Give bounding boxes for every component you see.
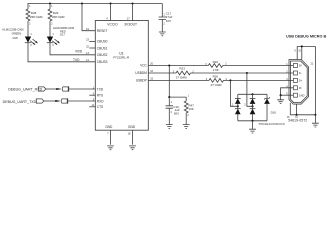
resistor R20 27 OHM bbox=[206, 75, 228, 88]
connector J1 micro-B shell bbox=[289, 60, 309, 105]
diode D16a upper left bbox=[235, 94, 241, 104]
wire R22 to USB 5V pin bbox=[223, 65, 294, 67]
wire 3V3 power rail bbox=[28, 3, 163, 5]
svg-text:TPD2E2U06DCKR: TPD2E2U06DCKR bbox=[258, 122, 285, 126]
svg-text:CBUS3: CBUS3 bbox=[97, 60, 108, 64]
wire TVS bottom rail bbox=[238, 120, 267, 122]
svg-text:27 OHM: 27 OHM bbox=[176, 76, 187, 80]
junction shield corner bbox=[314, 114, 316, 116]
svg-text:1: 1 bbox=[30, 33, 32, 36]
shield pin stubs top bbox=[294, 46, 301, 59]
wire USBDP to R20 bbox=[148, 79, 209, 81]
junction ID GND bbox=[280, 94, 282, 96]
diode D16c upper middle bbox=[250, 94, 256, 104]
svg-text:D18: D18 bbox=[13, 36, 18, 40]
svg-text:CBUS2: CBUS2 bbox=[97, 53, 108, 57]
junction TVS middle mid node bbox=[251, 105, 253, 107]
wire filter to RXD pin 5 bbox=[68, 100, 95, 102]
svg-text:7: 7 bbox=[107, 132, 109, 135]
inline filter symbol on RXD flag line bbox=[56, 86, 68, 91]
svg-text:2: 2 bbox=[163, 23, 165, 26]
wire ID pin to GND pin bbox=[281, 88, 294, 95]
ground under TVS bbox=[249, 129, 256, 133]
svg-text:268 OHM: 268 OHM bbox=[30, 15, 43, 19]
LED D18 GREEN HLMC220B-C006 bbox=[2, 28, 37, 48]
svg-text:CTS: CTS bbox=[97, 105, 103, 109]
svg-text:2: 2 bbox=[52, 44, 54, 47]
wire flag to filter bbox=[46, 88, 56, 90]
svg-text:VCC: VCC bbox=[140, 64, 147, 68]
junction TVS bottom rail bbox=[251, 120, 253, 122]
capacitor C16 .1uF 50V bbox=[166, 97, 180, 124]
svg-text:DEBUG_UART_RXD: DEBUG_UART_RXD bbox=[8, 88, 42, 92]
junction at 3V3OUT branch bbox=[131, 2, 133, 4]
junction shield top bbox=[301, 45, 303, 47]
svg-text:RXD: RXD bbox=[97, 99, 104, 103]
resistor R29 268 OHM bbox=[48, 4, 65, 37]
wire VCC to R22 bbox=[148, 65, 208, 67]
svg-text:16V: 16V bbox=[166, 19, 171, 23]
svg-text:4: 4 bbox=[106, 17, 108, 20]
junction shield bottom bbox=[295, 114, 297, 116]
svg-text:RTS: RTS bbox=[97, 93, 103, 97]
junction VCC decoupling branch bbox=[168, 64, 170, 66]
resistor R28 268 OHM bbox=[26, 4, 43, 37]
svg-text:2: 2 bbox=[244, 104, 246, 107]
resistor R22 1.5K bbox=[205, 60, 227, 72]
svg-text:18: 18 bbox=[128, 132, 131, 135]
wire shield to ground bbox=[314, 115, 316, 123]
wire shield right drop pin 21 bbox=[314, 46, 316, 114]
resistor R47 10K bbox=[184, 95, 194, 125]
svg-text:2: 2 bbox=[30, 44, 32, 47]
pin 7 GND stub bbox=[110, 130, 112, 144]
wire RESET to 3V3 rail bbox=[82, 4, 95, 31]
svg-text:CBUS0: CBUS0 bbox=[97, 40, 108, 44]
svg-text:HLMC300B-C006: HLMC300B-C006 bbox=[53, 26, 75, 30]
svg-text:TXD: TXD bbox=[97, 87, 104, 91]
junction at R29 top bbox=[49, 2, 51, 4]
svg-text:2: 2 bbox=[187, 114, 189, 117]
wire R23 to USB D- pin bbox=[191, 72, 294, 74]
wire filter to TXD pin 1 bbox=[69, 88, 95, 90]
wire TXD net from D18 to CBUS3 bbox=[28, 43, 95, 62]
pin 22 CBUS1 stub bbox=[89, 47, 95, 49]
connector pin 1 5V bbox=[286, 63, 302, 68]
off-page flag DEBUG_UART_RXD bbox=[8, 87, 46, 92]
ground under C16 bbox=[166, 125, 173, 129]
svg-text:21: 21 bbox=[311, 63, 314, 66]
pin 17 3V3OUT stub bbox=[132, 4, 134, 21]
wire RXD net from D17 to CBUS2 bbox=[50, 43, 95, 55]
junction C16 R47 bbox=[168, 96, 170, 98]
wire shield bottom run bbox=[290, 114, 315, 116]
svg-text:D+: D+ bbox=[299, 80, 303, 83]
junction D+ to TVS bbox=[229, 79, 231, 81]
junction at VCCIO branch bbox=[109, 2, 111, 4]
wire R20 to USB D+ pin bbox=[224, 79, 294, 81]
svg-text:1: 1 bbox=[171, 101, 173, 104]
pin 18 GND stub bbox=[132, 130, 134, 144]
connector pin 4 ID bbox=[286, 85, 301, 90]
inline filter symbol on TXD flag line bbox=[55, 98, 67, 103]
wire TVS ground drop bbox=[252, 121, 254, 129]
svg-text:R23: R23 bbox=[179, 67, 185, 71]
wire junction to R47 bbox=[169, 96, 186, 98]
svg-text:1: 1 bbox=[188, 95, 190, 98]
svg-text:23: 23 bbox=[86, 39, 89, 42]
wire D+ drop to TVS pin 1 bbox=[230, 80, 237, 106]
svg-text:USBDM: USBDM bbox=[135, 71, 147, 75]
wire shield top run bbox=[297, 45, 315, 47]
svg-text:GND: GND bbox=[105, 125, 113, 129]
wire TVS top rail bbox=[238, 93, 267, 95]
svg-text:1: 1 bbox=[52, 33, 54, 36]
svg-text:RESET: RESET bbox=[97, 29, 108, 33]
svg-text:1: 1 bbox=[51, 5, 53, 8]
ground under R47 bbox=[183, 125, 190, 129]
svg-text:GREEN: GREEN bbox=[12, 32, 22, 36]
svg-text:VCCIO: VCCIO bbox=[107, 23, 118, 27]
svg-text:USBDP: USBDP bbox=[136, 79, 147, 83]
junction at RESET branch bbox=[81, 2, 83, 4]
svg-text:27 OHM: 27 OHM bbox=[211, 83, 222, 87]
off-page flag DEBUG_UART_TXD bbox=[3, 99, 44, 104]
svg-text:USB DEBUG MICRO B: USB DEBUG MICRO B bbox=[286, 34, 327, 38]
svg-text:54819-0572: 54819-0572 bbox=[288, 119, 307, 123]
svg-text:CBUS1: CBUS1 bbox=[97, 46, 108, 50]
svg-text:10: 10 bbox=[298, 51, 301, 53]
junction TVS left mid node bbox=[237, 105, 239, 107]
ground under pin 7 bbox=[107, 146, 114, 150]
ground under pin 18 bbox=[129, 146, 136, 150]
svg-text:2: 2 bbox=[51, 23, 53, 26]
junction TVS top rail bbox=[251, 93, 253, 95]
connector pin 2 D- bbox=[286, 71, 301, 76]
ground under C17 bbox=[159, 32, 166, 36]
svg-text:50V: 50V bbox=[174, 111, 179, 115]
junction D- to TVS bbox=[246, 72, 248, 74]
zener clamp of D16 bbox=[264, 94, 270, 121]
wire GND pin bbox=[281, 94, 294, 96]
svg-text:1: 1 bbox=[29, 5, 31, 8]
svg-text:17: 17 bbox=[127, 17, 130, 20]
svg-text:GND: GND bbox=[128, 125, 136, 129]
svg-text:TXD: TXD bbox=[73, 58, 80, 62]
svg-text:RXD: RXD bbox=[76, 50, 83, 54]
svg-text:3V3OUT: 3V3OUT bbox=[124, 23, 137, 27]
op-amp-style IC box U3 FT232RL-R bbox=[95, 21, 148, 131]
pin 23 CBUS0 stub bbox=[89, 40, 95, 42]
svg-text:R20: R20 bbox=[213, 75, 219, 79]
resistor R23 27 OHM bbox=[173, 67, 195, 80]
svg-text:FT232RL-R: FT232RL-R bbox=[113, 56, 130, 60]
LED D17 RED HLMC300B-C006 bbox=[47, 26, 75, 47]
wire USBDM to R23 bbox=[148, 72, 176, 74]
svg-text:D17: D17 bbox=[60, 32, 65, 36]
svg-text:1.5K: 1.5K bbox=[213, 68, 219, 72]
svg-text:5V: 5V bbox=[299, 65, 302, 68]
ground shield bbox=[312, 123, 319, 127]
capacitor C17 47uF 16V bbox=[159, 4, 173, 32]
svg-text:D16: D16 bbox=[271, 111, 277, 115]
diode D16d lower middle bbox=[250, 104, 256, 121]
diode D16b lower left bbox=[235, 104, 241, 121]
svg-text:22: 22 bbox=[86, 45, 89, 48]
wire flag to filter bbox=[44, 100, 55, 102]
wire D- drop to TVS pin 2 bbox=[247, 73, 253, 106]
pin 11 CTS stub bbox=[89, 106, 95, 108]
svg-text:2: 2 bbox=[29, 23, 31, 26]
svg-text:10K: 10K bbox=[189, 107, 194, 111]
svg-text:D-: D- bbox=[299, 72, 302, 75]
connector pin 3 D+ bbox=[286, 78, 302, 83]
svg-text:R22: R22 bbox=[213, 60, 219, 64]
ground under connector GND bbox=[277, 100, 284, 104]
shield pin stubs bottom bbox=[287, 103, 299, 119]
pin 3 RTS stub bbox=[89, 94, 95, 96]
svg-text:GND: GND bbox=[299, 94, 305, 97]
connector pin 5 GND bbox=[286, 93, 304, 98]
pin 4 VCCIO stub bbox=[110, 4, 112, 21]
svg-text:DEBUG_UART_TXD: DEBUG_UART_TXD bbox=[3, 100, 37, 104]
svg-text:ID: ID bbox=[299, 87, 302, 90]
svg-text:HLMC220B-C006: HLMC220B-C006 bbox=[2, 28, 24, 32]
wire VCC branch down bbox=[168, 66, 170, 98]
svg-text:2: 2 bbox=[171, 111, 173, 114]
svg-text:268 OHM: 268 OHM bbox=[52, 15, 65, 19]
svg-text:9: 9 bbox=[294, 51, 296, 53]
